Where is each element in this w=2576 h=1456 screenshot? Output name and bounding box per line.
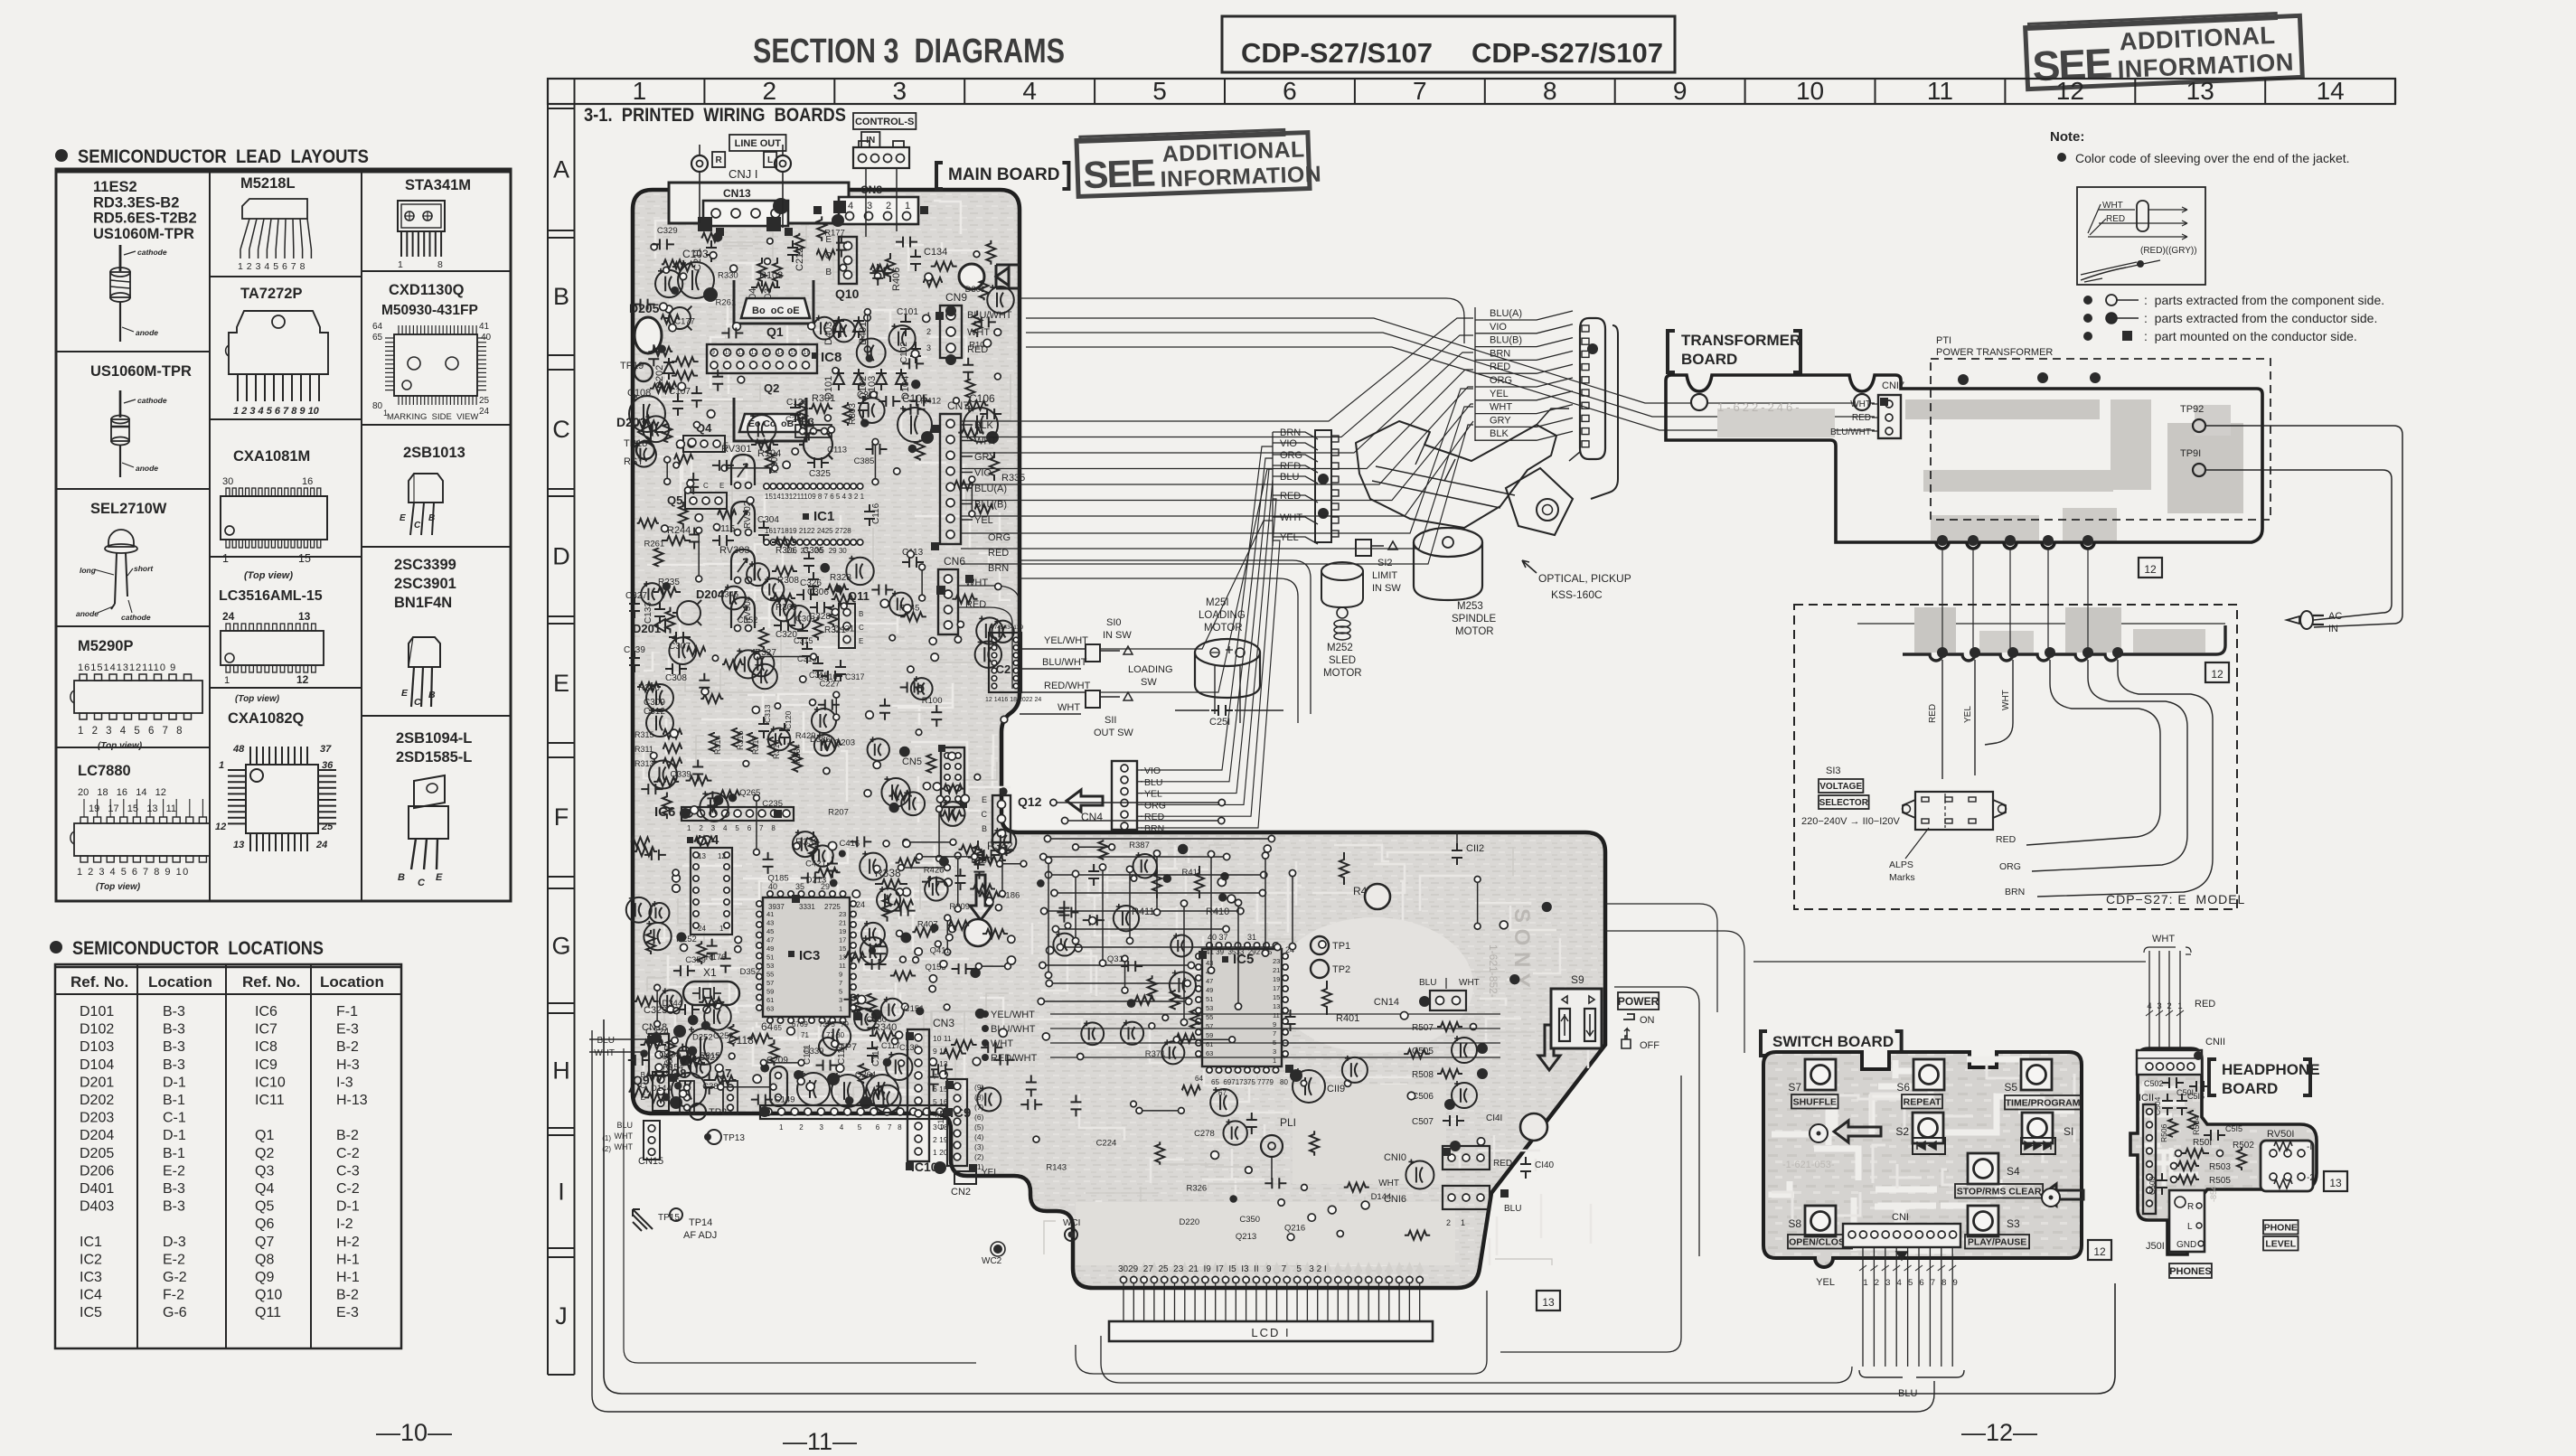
svg-text:14: 14 — [2317, 77, 2345, 105]
switch board left arrow bottom — [2042, 1184, 2083, 1206]
resistors R411 R410 — [1132, 866, 1229, 917]
svg-text:3331: 3331 — [799, 903, 815, 911]
svg-text:IC10: IC10 — [255, 1075, 286, 1090]
svg-text:RED/WHT: RED/WHT — [1044, 681, 1091, 691]
svg-text:71: 71 — [801, 1031, 809, 1039]
svg-text:51: 51 — [766, 953, 774, 962]
main board outline — [633, 190, 1605, 1288]
svg-text:D101: D101 — [80, 1004, 114, 1019]
svg-text:C325: C325 — [809, 469, 831, 479]
svg-text:R411: R411 — [1181, 868, 1201, 878]
svg-text:C305: C305 — [803, 546, 824, 556]
svg-text:POWER TRANSFORMER: POWER TRANSFORMER — [1936, 347, 2053, 358]
svg-text:PHONE: PHONE — [2264, 1223, 2298, 1234]
svg-text:CNJ I: CNJ I — [729, 167, 758, 181]
vertical wire pairs G region — [1045, 850, 1295, 1026]
svg-text:A: A — [553, 156, 569, 183]
svg-text:MAIN BOARD: MAIN BOARD — [948, 165, 1060, 184]
svg-text:8: 8 — [300, 261, 306, 272]
svg-text:3029 27 25 23 21 I9 I7: 3029 27 25 23 21 I9 I7 I5 I3 II 9 7 5 3 … — [1118, 1264, 1327, 1274]
svg-text:9: 9 — [711, 350, 715, 356]
svg-text:21: 21 — [839, 919, 846, 927]
ic IC11 — [2139, 1093, 2156, 1214]
svg-text:SPINDLE: SPINDLE — [1452, 614, 1497, 625]
svg-text:WHT: WHT — [2102, 201, 2123, 211]
svg-text:C177: C177 — [674, 316, 695, 326]
svg-text:SELECTOR: SELECTOR — [1819, 798, 1869, 808]
label POWER with on off — [1618, 992, 1659, 1051]
svg-text:64: 64 — [372, 322, 383, 332]
svg-text:(Top view): (Top view) — [235, 694, 280, 704]
svg-text:35: 35 — [795, 882, 804, 891]
svg-text:IC3: IC3 — [80, 1270, 102, 1285]
svg-text:3: 3 — [1273, 1047, 1276, 1056]
svg-text:CONTROL-S: CONTROL-S — [855, 117, 914, 127]
resistor R310 — [637, 682, 661, 693]
lead layout M5290P DIP16 drawing — [71, 638, 202, 751]
svg-text:1 2 3 4 5 6: 1 2 3 4 5 6 7 8 — [687, 824, 776, 832]
svg-text:SEMICONDUCTOR LEAD LAYOUTS: SEMICONDUCTOR LEAD LAYOUTS — [78, 146, 369, 167]
svg-text:BLU/WHT: BLU/WHT — [991, 1024, 1036, 1035]
svg-text:(Top view): (Top view) — [244, 570, 293, 581]
alps marks label — [1889, 828, 1929, 883]
svg-text:H-2: H-2 — [336, 1235, 360, 1250]
diode D202 — [654, 358, 674, 389]
connector CN7 — [940, 399, 969, 544]
lead layouts table frame — [56, 169, 511, 901]
capacitor C102 — [899, 342, 921, 363]
svg-text:R177: R177 — [824, 229, 845, 239]
svg-text:BLK: BLK — [1490, 428, 1509, 439]
main board index hole with arrow — [959, 264, 1020, 289]
svg-text:5: 5 — [839, 988, 842, 996]
svg-text:C116: C116 — [871, 503, 881, 524]
svg-text:Q1: Q1 — [766, 324, 784, 339]
svg-text:CDP-S27/S107: CDP-S27/S107 — [1471, 37, 1663, 69]
svg-text:F-1: F-1 — [336, 1004, 358, 1019]
svg-text:Q7: Q7 — [255, 1235, 274, 1250]
resistor cluster R315 R311 R313 R318 R317 R316 — [635, 704, 802, 768]
legend parts extracted conductor side — [2083, 311, 2377, 325]
svg-text:RED: RED — [2195, 999, 2215, 1010]
svg-text:CNI0: CNI0 — [1384, 1152, 1406, 1163]
svg-text:10 11: 10 11 — [933, 1034, 952, 1043]
svg-text:GRY: GRY — [974, 452, 996, 463]
legend parts extracted component side — [2083, 293, 2384, 307]
svg-text:R100: R100 — [922, 696, 943, 706]
capacitor C312 electrolytic — [644, 707, 673, 737]
svg-text:R: R — [715, 155, 722, 165]
transistor Q3 — [795, 417, 832, 459]
svg-text:CXA1082Q: CXA1082Q — [228, 710, 305, 727]
capacitor C507 — [1412, 1113, 1502, 1127]
svg-text:LIMIT: LIMIT — [1372, 570, 1397, 581]
svg-text:TRANSFORMER: TRANSFORMER — [1681, 332, 1800, 349]
svg-text:30: 30 — [222, 476, 233, 487]
svg-text:C385: C385 — [854, 456, 875, 466]
svg-text:4: 4 — [264, 261, 269, 272]
resistor R340 — [870, 1022, 898, 1040]
capacitor C305 — [803, 546, 824, 573]
svg-text:YEL: YEL — [1490, 389, 1509, 399]
svg-text:SI2: SI2 — [1377, 558, 1393, 568]
down arrow main board mid — [970, 875, 992, 920]
svg-text:J: J — [555, 1302, 568, 1329]
svg-text:C317: C317 — [845, 672, 865, 681]
svg-text:WHT: WHT — [1058, 702, 1080, 713]
svg-text:B-2: B-2 — [336, 1039, 359, 1055]
svg-text:Bo oC oE: Bo oC oE — [752, 305, 800, 316]
transistor Q7 — [716, 1066, 738, 1114]
label PHONE LEVEL — [2263, 1220, 2299, 1251]
svg-text:TA7272P: TA7272P — [240, 286, 302, 302]
svg-text:IC4: IC4 — [80, 1288, 102, 1303]
svg-text:WHT: WHT — [1378, 1179, 1399, 1188]
svg-text:14: 14 — [777, 350, 785, 356]
svg-text:C134: C134 — [924, 247, 947, 258]
svg-text:7: 7 — [1413, 77, 1427, 105]
svg-text:51: 51 — [1206, 995, 1213, 1003]
trimmer RV303 — [719, 545, 755, 584]
label MAIN BOARD — [936, 163, 1068, 189]
lead layout TA7272P SIP10 drawing — [226, 286, 328, 417]
svg-text:BLU(A): BLU(A) — [974, 484, 1007, 494]
svg-text:Q216: Q216 — [1284, 1224, 1305, 1234]
svg-text:-1-621-053-: -1-621-053- — [1782, 1160, 1835, 1170]
diode D104 — [896, 369, 911, 399]
svg-text:OUT SW: OUT SW — [1094, 728, 1133, 738]
svg-text:9: 9 — [1953, 1278, 1958, 1288]
svg-text:40: 40 — [481, 333, 492, 343]
ic IC9 connector strip — [759, 1105, 971, 1132]
svg-text:CI4I: CI4I — [1486, 1113, 1502, 1123]
svg-text:(4): (4) — [974, 1132, 984, 1141]
svg-text:R207: R207 — [828, 807, 849, 817]
svg-text:Q411: Q411 — [930, 945, 951, 955]
svg-text:D301: D301 — [965, 285, 986, 295]
wire label stack right BLU(A) to BLK — [1475, 307, 1573, 441]
svg-text:X1: X1 — [703, 966, 717, 979]
svg-text:10: 10 — [1796, 77, 1824, 105]
svg-text:45: 45 — [766, 927, 774, 935]
svg-text:IC11: IC11 — [255, 1093, 285, 1108]
svg-text:Q339: Q339 — [670, 770, 691, 780]
svg-text:YEL: YEL — [1963, 706, 1973, 723]
svg-text:ALPS: ALPS — [1889, 860, 1913, 870]
svg-text:R244: R244 — [667, 525, 691, 536]
switch S7 with SHUFFLE label — [1788, 1059, 1838, 1109]
svg-text:6: 6 — [1283, 77, 1297, 105]
svg-text:R503: R503 — [2209, 1162, 2231, 1172]
svg-text:cathode: cathode — [121, 613, 151, 622]
svg-text:65: 65 — [372, 333, 383, 343]
svg-text:C: C — [982, 810, 988, 819]
svg-text:R412: R412 — [920, 397, 941, 407]
diode D205 — [629, 301, 691, 330]
svg-text:C149: C149 — [775, 1094, 795, 1104]
transistor Q2 power with bracket — [734, 381, 806, 459]
svg-text:IC6: IC6 — [255, 1004, 277, 1019]
svg-text:63: 63 — [766, 1005, 774, 1013]
svg-text:C313: C313 — [763, 704, 772, 723]
phone jack J501 — [2146, 1190, 2205, 1252]
svg-text:E: E — [401, 688, 409, 699]
svg-text:1 20: 1 20 — [933, 1148, 948, 1157]
svg-text:C308: C308 — [665, 673, 687, 683]
svg-text:4: 4 — [1022, 77, 1037, 105]
wire from switch comb to left — [1101, 1336, 1852, 1383]
svg-text:Q1: Q1 — [255, 1128, 274, 1143]
transistor connector Q5 — [667, 482, 727, 509]
svg-text:IC2: IC2 — [80, 1252, 102, 1267]
headphone small caps C502 C501 C504 C516 — [2144, 1077, 2211, 1142]
loading switch S11 — [1020, 664, 1173, 738]
svg-text:ORG: ORG — [1999, 861, 2021, 872]
svg-text:HEADPHONE: HEADPHONE — [2222, 1061, 2320, 1078]
wire bundle CN4 to sled stack — [1141, 446, 1280, 828]
svg-text:1: 1 — [398, 259, 403, 270]
svg-text:OPTICAL, PICKUP: OPTICAL, PICKUP — [1538, 572, 1631, 585]
wire bundle CN7 to pickup flex — [961, 318, 1473, 516]
svg-text:D-1: D-1 — [163, 1075, 186, 1090]
resistor R306 — [772, 538, 797, 556]
capacitor C103 electrolytic — [678, 248, 718, 302]
transformer mounting holes — [1691, 394, 1870, 410]
svg-text:ON: ON — [1640, 1015, 1655, 1026]
resistor R508 — [1412, 1068, 1488, 1080]
svg-text:13: 13 — [298, 610, 311, 623]
switch S9 power — [1551, 973, 1602, 1048]
svg-text:-2: -2 — [2307, 1173, 2315, 1183]
svg-text:B-3: B-3 — [163, 1199, 185, 1215]
svg-text:C101: C101 — [897, 307, 918, 317]
svg-text:Q185: Q185 — [767, 874, 788, 884]
flex cable comb — [1580, 318, 1618, 499]
connector CN2 — [951, 1168, 999, 1198]
svg-text:31: 31 — [1247, 933, 1256, 942]
svg-text:RD5.6ES-T2B2: RD5.6ES-T2B2 — [93, 211, 197, 227]
svg-text:CII2: CII2 — [1466, 843, 1484, 854]
svg-text:CXA1081M: CXA1081M — [233, 448, 310, 465]
connector CN5 — [902, 745, 967, 808]
svg-text:PLAY/PAUSE: PLAY/PAUSE — [1968, 1237, 2026, 1248]
mechanism chassis outline — [1356, 409, 1580, 535]
resistor R309 — [770, 594, 797, 613]
svg-text:SI: SI — [2064, 1125, 2073, 1138]
location box 12 transformer — [2139, 558, 2162, 578]
connector CN1 switch board — [1843, 1212, 1960, 1247]
capacitor C302 — [857, 390, 879, 418]
resistor R401 — [1322, 981, 1359, 1024]
svg-text:17: 17 — [1273, 984, 1280, 992]
svg-text:(5): (5) — [974, 1123, 984, 1132]
svg-text:C: C — [414, 697, 421, 708]
heading SEMICONDUCTOR LEAD LAYOUTS — [55, 146, 369, 167]
svg-text:64: 64 — [1195, 1075, 1203, 1083]
svg-text:ORG: ORG — [1280, 450, 1302, 461]
svg-text:C108: C108 — [627, 388, 651, 399]
svg-text:C126: C126 — [786, 398, 808, 408]
svg-text:2SD1585-L: 2SD1585-L — [396, 749, 472, 766]
svg-text:B: B — [428, 690, 436, 700]
transformer solder dots bottom — [1937, 535, 2093, 546]
svg-text:R315: R315 — [635, 730, 654, 739]
svg-text:SEL2710W: SEL2710W — [90, 501, 167, 517]
svg-text:C315: C315 — [794, 636, 813, 645]
location box 12 second view — [2205, 662, 2229, 682]
trimmer RV302 — [731, 501, 755, 535]
switch board pivot circles — [1810, 1124, 2060, 1207]
location box 12 switch board — [2088, 1240, 2111, 1260]
svg-text:B-3: B-3 — [163, 1022, 185, 1038]
svg-text:2 19: 2 19 — [933, 1135, 948, 1144]
svg-text:D144: D144 — [1371, 1192, 1392, 1202]
component filler right extension — [1020, 840, 1552, 1242]
transistor Q1 power with bracket — [734, 270, 813, 339]
lead layout 2SC3399 transistor drawing — [394, 557, 456, 708]
svg-text:cathode: cathode — [137, 396, 167, 405]
svg-text:anode: anode — [136, 328, 158, 337]
svg-text:7: 7 — [291, 261, 296, 272]
svg-text:E: E — [719, 482, 724, 490]
svg-text:B: B — [428, 513, 435, 523]
svg-text:YEL: YEL — [1144, 789, 1162, 800]
switch board left arrow top — [1834, 1121, 1881, 1142]
svg-text:12: 12 — [718, 852, 726, 860]
wire label stack left BRN VIO ORG RED BLU RED WHT YEL — [1273, 427, 1318, 546]
svg-text:24: 24 — [222, 610, 235, 623]
svg-text:43: 43 — [766, 919, 774, 927]
diode D203 — [616, 415, 663, 439]
svg-text:—12—: —12— — [1961, 1419, 2037, 1446]
resistor R328 — [825, 573, 851, 594]
svg-text:WHT: WHT — [1459, 978, 1480, 988]
dashed box CDP-S27 E MODEL — [1794, 605, 2237, 909]
ic IC2 DIP — [985, 625, 1041, 703]
svg-text:5: 5 — [1152, 77, 1167, 105]
svg-text:3: 3 — [256, 261, 261, 272]
svg-text:ORG: ORG — [988, 532, 1011, 543]
svg-text:E-3: E-3 — [336, 1022, 359, 1038]
svg-text:B-2: B-2 — [336, 1128, 359, 1143]
trimmer RV301 — [721, 444, 755, 489]
headphone board trace texture — [2142, 1143, 2160, 1148]
connector CN9 — [926, 291, 1012, 365]
svg-text:REPEAT: REPEAT — [1904, 1097, 1941, 1108]
capacitor C126 — [786, 398, 808, 422]
svg-text:SLED: SLED — [1329, 655, 1356, 666]
svg-text:Ref. No.: Ref. No. — [242, 973, 300, 991]
ic IC6 connector strip — [654, 804, 794, 832]
capacitor C105 electrolytic — [898, 392, 934, 444]
svg-text:Q12: Q12 — [1018, 794, 1042, 809]
svg-text:C503: C503 — [2148, 1176, 2157, 1195]
svg-text:6: 6 — [282, 261, 287, 272]
svg-text:7: 7 — [839, 979, 842, 987]
svg-text:IC3: IC3 — [799, 948, 820, 963]
lead layout M5218L SIP drawing — [238, 175, 311, 272]
capacitor C315 C316 C319 C317 — [794, 624, 865, 681]
label CONTROL-S IN — [853, 113, 916, 147]
svg-text:63: 63 — [1206, 1049, 1213, 1057]
lead layout CXD1130Q QFP drawing — [372, 282, 492, 422]
wire bundle CN9 to CN17 — [1026, 318, 1875, 430]
svg-text:R401: R401 — [1336, 1013, 1359, 1024]
svg-text:L: L — [2187, 1222, 2193, 1232]
svg-text:49: 49 — [766, 944, 774, 953]
svg-text:12 1416 18 2022 24: 12 1416 18 2022 24 — [985, 697, 1041, 703]
svg-text:B-3: B-3 — [163, 1004, 185, 1019]
svg-text:WC2: WC2 — [982, 1256, 1002, 1266]
hatch wedge arrow TR15 — [633, 1209, 680, 1231]
svg-text:Q10: Q10 — [835, 287, 860, 301]
switch board wire comb with BLU bracket — [1816, 1247, 1964, 1399]
capacitor C113 — [902, 548, 924, 568]
svg-text:R335: R335 — [1001, 473, 1025, 484]
svg-text:M5290P: M5290P — [78, 638, 133, 654]
svg-text:Location: Location — [148, 973, 212, 991]
transformer board outline — [1666, 375, 2262, 549]
transformer second view board sliver — [1857, 548, 2225, 661]
svg-text:BOARD: BOARD — [1681, 351, 1737, 368]
svg-text:C139: C139 — [624, 645, 645, 655]
svg-text:19: 19 — [1273, 975, 1280, 983]
svg-text:E: E — [436, 872, 443, 883]
test point TP91 — [2180, 448, 2205, 476]
svg-text:VIO: VIO — [1280, 438, 1297, 449]
svg-text:5: 5 — [1908, 1278, 1913, 1288]
svg-text:S2: S2 — [1895, 1125, 1909, 1138]
svg-text:E: E — [982, 795, 987, 804]
capacitor C107 — [669, 387, 691, 416]
ic IC8 connector strip — [707, 344, 841, 373]
svg-text:RED: RED — [1928, 704, 1938, 723]
svg-text:C: C — [552, 416, 570, 443]
svg-text:IC1: IC1 — [813, 509, 834, 524]
svg-text:IC9: IC9 — [255, 1057, 277, 1073]
lead layout 11ES2 / RD3.3ES-B2 diode drawing — [93, 179, 197, 342]
svg-text:I-3: I-3 — [336, 1075, 353, 1090]
svg-text:8: 8 — [1543, 77, 1557, 105]
svg-text:H: H — [552, 1057, 570, 1085]
svg-text:1 2 3 4 5 6 7 8: 1 2 3 4 5 6 7 8 — [78, 726, 185, 737]
svg-text:C327: C327 — [625, 591, 647, 601]
svg-text:VIO: VIO — [1144, 766, 1161, 776]
note bullet color code text — [2057, 151, 2350, 165]
svg-text:D104: D104 — [80, 1057, 114, 1073]
svg-text:CN2: CN2 — [951, 1187, 971, 1198]
power transformer dashed box PT1 — [1931, 335, 2270, 520]
resistor R321 — [824, 605, 846, 635]
svg-text:R311: R311 — [635, 745, 653, 754]
svg-text:Q203: Q203 — [834, 737, 855, 747]
svg-text:53: 53 — [766, 962, 774, 970]
svg-text:Q10: Q10 — [255, 1288, 282, 1303]
svg-text:I: I — [558, 1179, 565, 1206]
svg-text:12: 12 — [2211, 668, 2223, 681]
capacitor C211 — [692, 240, 717, 271]
svg-text:41: 41 — [766, 910, 774, 918]
sled motor M252 — [1321, 562, 1363, 679]
svg-text:B-1: B-1 — [163, 1093, 185, 1108]
svg-text:PTI: PTI — [1936, 335, 1951, 346]
svg-text:RD3.3ES-B2: RD3.3ES-B2 — [93, 194, 179, 211]
svg-text:Q6: Q6 — [255, 1216, 274, 1232]
svg-text:VIO: VIO — [1490, 322, 1507, 333]
svg-text:61: 61 — [1206, 1040, 1213, 1048]
svg-text:23: 23 — [839, 910, 846, 918]
switch S12 limit in sw — [1356, 540, 1401, 594]
